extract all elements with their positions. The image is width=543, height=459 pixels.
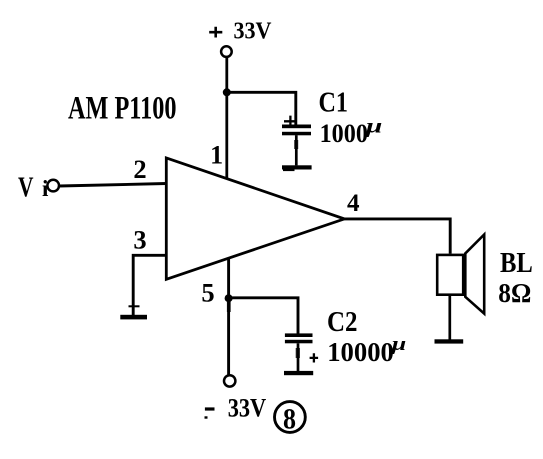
svg-text:4: 4 — [347, 190, 360, 217]
svg-text:3: 3 — [133, 225, 146, 255]
svg-text:C2: C2 — [327, 307, 358, 338]
svg-text:µ: µ — [364, 116, 383, 138]
svg-text:5: 5 — [201, 278, 214, 308]
svg-text:8: 8 — [283, 403, 296, 436]
svg-text:V: V — [18, 172, 34, 203]
svg-text:8Ω: 8Ω — [498, 278, 531, 308]
svg-text:2: 2 — [133, 154, 146, 184]
svg-text:33V: 33V — [234, 19, 273, 45]
svg-text:1000: 1000 — [320, 119, 368, 148]
svg-text:AM P1100: AM P1100 — [68, 90, 177, 126]
svg-text:BL: BL — [500, 248, 533, 279]
svg-text:1: 1 — [210, 141, 223, 170]
svg-text:10000: 10000 — [327, 337, 394, 367]
svg-text:µ: µ — [390, 335, 406, 355]
svg-text:C1: C1 — [319, 88, 349, 119]
svg-text:33V: 33V — [228, 393, 267, 423]
